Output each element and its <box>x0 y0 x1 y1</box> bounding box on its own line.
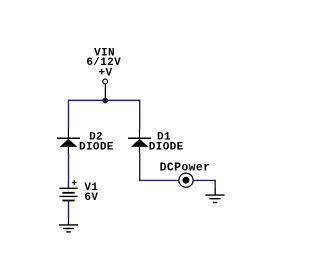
svg-text:DIODE: DIODE <box>149 141 184 153</box>
svg-text:DIODE: DIODE <box>79 141 114 153</box>
svg-text:6V: 6V <box>84 192 98 204</box>
svg-text:DCPower: DCPower <box>160 161 211 174</box>
svg-text:+V: +V <box>99 67 113 79</box>
